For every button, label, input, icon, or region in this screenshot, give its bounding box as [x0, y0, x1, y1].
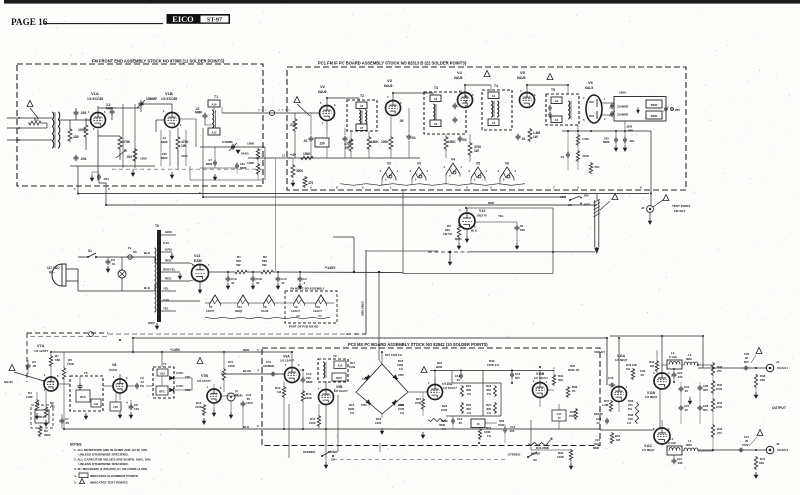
pilot lamp — [118, 270, 126, 278]
svg-text:T6: T6 — [84, 371, 88, 375]
svg-text:1/3 6BQ7: 1/3 6BQ7 — [645, 395, 658, 399]
svg-text:CATH: CATH — [176, 371, 183, 375]
svg-text:1.5M: 1.5M — [582, 137, 589, 141]
svg-text:FM SET: FM SET — [674, 209, 685, 213]
svg-text:R15 1500 1%: R15 1500 1% — [385, 353, 402, 357]
svg-text:3900: 3900 — [44, 433, 51, 437]
solder point exits box A — [77, 166, 79, 194]
svg-text:MMF: MMF — [206, 162, 213, 166]
svg-text:6AU6: 6AU6 — [261, 309, 269, 313]
svg-text:9: 9 — [503, 179, 505, 182]
svg-text:V5: V5 — [520, 70, 526, 75]
svg-text:MMF: MMF — [161, 140, 168, 144]
V7B cathode — [213, 403, 215, 410]
wire loop around V12 — [466, 207, 553, 209]
svg-text:6800: 6800 — [651, 114, 658, 118]
svg-text:BLK: BLK — [243, 425, 250, 429]
capacitor .01 V2 out — [344, 136, 346, 139]
test point triangle mx — [197, 358, 203, 364]
capacitor C1A 40 — [227, 276, 229, 279]
svg-text:OFF: OFF — [584, 203, 590, 207]
svg-text:TEST POINT: TEST POINT — [672, 204, 690, 208]
resistor 4700 1W — [176, 136, 180, 150]
svg-text:NE-2: NE-2 — [235, 393, 242, 397]
MX heater dashed box — [285, 291, 337, 323]
svg-text:100K: 100K — [228, 364, 236, 368]
heater V7 — [210, 295, 221, 304]
svg-text:1500: 1500 — [498, 423, 505, 427]
svg-text:A4: A4 — [492, 94, 496, 98]
svg-text:3: 3 — [444, 165, 446, 169]
svg-text:6AL5: 6AL5 — [585, 86, 593, 90]
svg-text:5: 5 — [583, 118, 585, 122]
svg-text:V7B: V7B — [201, 374, 208, 378]
svg-text:7: 7 — [553, 186, 555, 190]
svg-text:.001: .001 — [103, 177, 109, 181]
BLUE rail — [221, 373, 285, 375]
svg-text:6AU6: 6AU6 — [384, 84, 393, 88]
svg-text:4700: 4700 — [181, 154, 188, 158]
svg-text:7K: 7K — [572, 389, 576, 393]
svg-text:A15: A15 — [212, 131, 217, 135]
capacitor C24 — [680, 386, 682, 389]
svg-text:STEREO: STEREO — [303, 450, 316, 454]
heater V9 — [294, 295, 305, 304]
svg-text:A6: A6 — [434, 97, 438, 101]
resistor 100K osc2 — [256, 163, 259, 175]
svg-text:6AU6: 6AU6 — [517, 76, 526, 80]
capacitor 3.3 MMF — [111, 109, 113, 112]
capacitor C25 — [680, 405, 682, 408]
svg-text:MMF: MMF — [306, 380, 313, 384]
svg-text:A16: A16 — [212, 103, 217, 107]
wire V12 yel — [475, 221, 517, 223]
svg-text:1/2 12AU7: 1/2 12AU7 — [280, 359, 295, 363]
resistor 3900 — [291, 164, 295, 178]
ground arrows box A — [132, 170, 134, 174]
svg-text:T3: T3 — [434, 86, 438, 90]
resistor 1000 — [133, 148, 137, 162]
wire rail y197 — [203, 196, 566, 198]
resistor 470K — [118, 136, 122, 150]
resistor 100K V3 — [389, 136, 393, 150]
svg-text:7: 7 — [583, 96, 585, 100]
svg-text:150: 150 — [113, 405, 118, 409]
svg-text:6MA: 6MA — [686, 357, 692, 361]
svg-text:4: 4 — [486, 169, 488, 173]
neon lamp NE-2 — [227, 393, 235, 401]
svg-text:UNLESS OTHERWISE SPECIFIED.: UNLESS OTHERWISE SPECIFIED. — [79, 453, 129, 457]
tube V9B — [319, 390, 334, 405]
svg-text:55K: 55K — [558, 378, 563, 382]
capacitor C19 — [609, 384, 612, 386]
svg-text:T5: T5 — [551, 88, 555, 92]
wire V2 plate to T2 — [335, 109, 348, 111]
wire T7 to V7B — [174, 377, 192, 379]
svg-text:.05: .05 — [456, 378, 460, 382]
svg-text:335: 335 — [703, 388, 708, 392]
svg-text:V7A: V7A — [37, 344, 45, 348]
wires V1A cathode area — [97, 130, 99, 182]
svg-text:7: 7 — [428, 381, 430, 385]
svg-text:600: 600 — [520, 228, 525, 232]
wire front-end rails — [58, 119, 90, 121]
svg-text:1: 1 — [88, 110, 90, 114]
wire det to J4 — [650, 131, 652, 206]
svg-text:J1: J1 — [776, 360, 780, 364]
svg-text:CATH: CATH — [176, 384, 183, 388]
svg-text:220MMF: 220MMF — [617, 113, 629, 117]
svg-text:R31 250K: R31 250K — [536, 446, 550, 450]
svg-text:RED: RED — [243, 348, 250, 352]
svg-text:.01: .01 — [521, 137, 526, 141]
svg-text:470: 470 — [308, 181, 314, 185]
svg-text:3: 3 — [577, 186, 579, 190]
jack J2 CHAN 2 — [766, 446, 774, 454]
resistor 470 — [303, 176, 307, 188]
svg-text:1W 5%: 1W 5% — [443, 232, 453, 236]
svg-text:12: 12 — [282, 154, 285, 158]
V8 cathode gnd — [119, 412, 121, 416]
svg-text:1500: 1500 — [349, 365, 356, 369]
svg-text:1%: 1% — [400, 411, 405, 415]
capacitor C8 electrolytic — [130, 404, 132, 407]
svg-text:2: 2 — [604, 117, 606, 121]
svg-text:270: 270 — [717, 431, 722, 435]
svg-text:V12: V12 — [479, 209, 485, 213]
svg-text:8: 8 — [336, 186, 338, 190]
svg-text:V3: V3 — [387, 78, 393, 83]
svg-text:YEL: YEL — [163, 307, 169, 311]
svg-text:47K: 47K — [594, 165, 600, 169]
B+ rail — [208, 271, 234, 273]
svg-text:5: 5 — [74, 187, 76, 191]
svg-text:CR3: CR3 — [362, 377, 368, 381]
svg-text:A1: A1 — [555, 118, 559, 122]
svg-text:.05: .05 — [684, 389, 688, 393]
svg-text:470K: 470K — [195, 405, 203, 409]
svg-text:.05: .05 — [32, 364, 37, 368]
shield dashed line — [27, 332, 108, 334]
wire violet drop — [606, 338, 608, 385]
svg-text:CHAN 1: CHAN 1 — [777, 366, 788, 370]
svg-text:4: 4 — [466, 186, 468, 190]
svg-text:1%: 1% — [467, 392, 472, 396]
svg-text:600K 1%: 600K 1% — [568, 368, 580, 372]
wires mx section — [58, 383, 70, 385]
svg-text:1/2 12AU7: 1/2 12AU7 — [534, 376, 548, 380]
svg-text:C17: C17 — [557, 412, 562, 416]
resistor 6800 lower box — [646, 111, 662, 119]
svg-text:FM FRONT END ASSEMBLY STOC: FM FRONT END ASSEMBLY STOCK NO 97065 (11… — [92, 59, 225, 64]
svg-text:.005: .005 — [509, 429, 515, 433]
capacitor .001 top — [75, 110, 77, 113]
svg-text:5.: 5. — [74, 481, 77, 485]
svg-text:9: 9 — [415, 179, 417, 182]
wire rail y193 — [78, 193, 649, 195]
heater chain wiring — [200, 300, 210, 302]
svg-text:6: 6 — [640, 186, 642, 190]
svg-text:6: 6 — [534, 93, 536, 97]
svg-text:EZ80: EZ80 — [194, 259, 202, 263]
svg-text:220MMF: 220MMF — [617, 105, 629, 109]
svg-text:1%: 1% — [350, 411, 355, 415]
wire y252 to shield — [366, 250, 438, 252]
heater V8 — [264, 295, 275, 304]
V12 cathode arrow — [466, 230, 468, 236]
svg-text:T8: T8 — [155, 224, 159, 228]
svg-text:EICO: EICO — [172, 15, 194, 24]
svg-text:005: 005 — [703, 408, 708, 412]
svg-text:CHAN 2: CHAN 2 — [777, 448, 788, 452]
svg-text:4.5: 4.5 — [318, 314, 322, 318]
svg-text:1: 1 — [44, 373, 46, 377]
bridge diamond wiring — [356, 364, 408, 414]
svg-text:A13: A13 — [338, 364, 343, 368]
long verticals below box C — [288, 404, 290, 458]
svg-text:BLK: BLK — [144, 251, 151, 255]
EICO logo box — [167, 14, 231, 24]
svg-text:RED: RED — [165, 259, 172, 263]
wire V11B cathode to V11C — [659, 389, 661, 428]
rail BLK inside — [262, 428, 600, 430]
svg-text:CR5: CR5 — [398, 373, 404, 377]
svg-text:10: 10 — [558, 416, 561, 420]
wire mixer rail — [141, 103, 172, 105]
svg-text:A3: A3 — [492, 121, 496, 125]
svg-text:15V: 15V — [134, 407, 139, 411]
capacitor C26 — [699, 385, 701, 388]
svg-text:6: 6 — [257, 424, 259, 428]
svg-text:1/3 6BQ7: 1/3 6BQ7 — [615, 358, 628, 362]
wire matrix box — [451, 371, 453, 384]
wire mx rail y352 — [51, 351, 262, 353]
svg-text:GRN SHLD: GRN SHLD — [361, 301, 365, 316]
wires output chan2 — [661, 420, 663, 428]
T8 secondary taps — [161, 234, 176, 236]
svg-text:4: 4 — [461, 165, 463, 169]
wire matrix rail y370 — [430, 370, 554, 372]
svg-text:4: 4 — [520, 89, 522, 93]
capacitor C17 box — [552, 410, 566, 421]
capacitor 120MMF — [236, 163, 238, 166]
+4V rail — [287, 157, 420, 159]
svg-text:117 VAC: 117 VAC — [47, 266, 60, 270]
svg-text:RED: RED — [488, 201, 495, 205]
svg-text:6.3V: 6.3V — [163, 241, 169, 245]
svg-text:4: 4 — [387, 95, 389, 99]
svg-text:.01: .01 — [111, 262, 116, 266]
MX IN label — [9, 365, 15, 371]
svg-text:270: 270 — [717, 369, 722, 373]
svg-text:150V: 150V — [742, 443, 749, 447]
svg-text:9: 9 — [199, 191, 201, 195]
svg-text:RED/YEL: RED/YEL — [163, 268, 176, 272]
wire +4V entry — [248, 157, 292, 159]
bridge wires — [348, 365, 356, 367]
svg-text:MX IN: MX IN — [4, 380, 13, 384]
test point triangle J4 — [663, 195, 669, 201]
svg-text:6: 6 — [108, 187, 110, 191]
output rail chan2 — [698, 449, 766, 451]
wires inside box C right — [539, 371, 541, 383]
svg-text:1/2 ECC85: 1/2 ECC85 — [161, 97, 177, 101]
svg-text:S1: S1 — [88, 249, 92, 253]
svg-text:.05: .05 — [458, 421, 462, 425]
svg-text:6AU6: 6AU6 — [109, 368, 117, 372]
svg-text:40: 40 — [281, 281, 285, 285]
svg-text:.01: .01 — [303, 139, 308, 143]
test point triangle J2 — [757, 430, 763, 436]
svg-text:1: 1 — [113, 375, 115, 379]
alignment box 130 — [315, 138, 329, 147]
svg-text:150V: 150V — [246, 401, 253, 405]
svg-text:6: 6 — [57, 374, 59, 378]
svg-text:6047: 6047 — [336, 376, 342, 380]
wires output top — [661, 336, 663, 373]
tube V11C — [654, 428, 670, 444]
diode CR5 — [393, 375, 398, 380]
capacitor .01 T4 — [517, 134, 519, 137]
svg-text:2: 2 — [362, 186, 364, 190]
test point triangle V5 — [547, 74, 553, 80]
detector box wiring — [614, 97, 666, 122]
svg-text:4: 4 — [515, 169, 517, 173]
wire box C bottom exits — [379, 443, 381, 452]
wires cap ladder — [680, 382, 682, 385]
ground rail bottom BLK — [64, 428, 262, 430]
svg-text:+145V: +145V — [325, 266, 336, 270]
svg-text:.01: .01 — [411, 136, 416, 140]
capacitor .01 T3 out — [459, 136, 461, 139]
capacitor .01 det — [567, 152, 569, 155]
capacitor C27 — [738, 449, 741, 451]
svg-text:T2: T2 — [360, 94, 364, 98]
detector bottom rail — [562, 130, 651, 132]
svg-text:7: 7 — [208, 263, 210, 267]
svg-text:V1A: V1A — [91, 91, 99, 96]
svg-text:.01: .01 — [462, 138, 467, 142]
resistor 150K on +4V — [300, 156, 314, 159]
output rail chan1 — [698, 367, 766, 369]
svg-text:150K: 150K — [448, 140, 456, 144]
svg-text:V4: V4 — [451, 158, 455, 162]
svg-text:BLK: BLK — [144, 286, 151, 290]
svg-text:RFC: RFC — [159, 390, 165, 394]
svg-text:2.2M: 2.2M — [602, 403, 609, 407]
svg-text:1%: 1% — [399, 367, 404, 371]
test point triangle ant — [27, 101, 33, 107]
svg-text:MMF: MMF — [161, 156, 168, 160]
output cap 28V — [665, 106, 667, 109]
heater bus wavy — [340, 184, 525, 186]
test point triangle J1 — [756, 348, 762, 354]
svg-text:150K: 150K — [303, 152, 311, 156]
svg-text:6BQ7: 6BQ7 — [235, 309, 243, 313]
capacitor 220MMF bypass — [615, 137, 617, 140]
svg-text:4: 4 — [459, 208, 461, 212]
svg-text:1/2 12AU7: 1/2 12AU7 — [334, 389, 348, 393]
svg-text:6.3V: 6.3V — [163, 298, 169, 302]
svg-text:4: 4 — [668, 371, 670, 375]
svg-text:5: 5 — [257, 348, 259, 352]
capacitor C1B 40 — [252, 276, 254, 279]
svg-text:5: 5 — [320, 101, 322, 105]
wire V12 return vertical — [353, 237, 355, 272]
capacitor 220MMF lower — [611, 111, 613, 114]
svg-text:PC1 FM IF PC BOARD ASSEMBLY: PC1 FM IF PC BOARD ASSEMBLY STOCK NO 825… — [318, 61, 467, 66]
svg-text:4: 4 — [257, 368, 259, 372]
svg-text:1. ALL RESISTORS ARE IN OHMS A: 1. ALL RESISTORS ARE IN OHMS ARE 1/2 W, … — [74, 448, 148, 452]
resistor 4700 1W — [468, 142, 472, 156]
V13 cathode down arrow — [199, 282, 201, 288]
wires V11 bias — [661, 444, 663, 446]
svg-text:.033: .033 — [677, 375, 683, 379]
svg-text:180: 180 — [73, 135, 79, 139]
PC2 MX board dashed box — [262, 348, 600, 446]
svg-text:CR4: CR4 — [361, 403, 367, 407]
diode CR4 — [366, 400, 371, 405]
svg-text:3: 3 — [498, 169, 500, 173]
diode CR2 — [170, 388, 174, 391]
capacitor C1C 40 — [277, 276, 279, 279]
tube V11B — [654, 373, 670, 389]
svg-text:.05: .05 — [640, 373, 644, 377]
svg-text:6: 6 — [400, 101, 402, 105]
svg-text:2: 2 — [298, 363, 300, 367]
svg-text:INDICATES ALIGNMENT POINTS: INDICATES ALIGNMENT POINTS — [90, 474, 138, 478]
svg-text:.001: .001 — [80, 111, 87, 115]
dashed shield segment — [428, 251, 470, 253]
svg-text:1: 1 — [604, 97, 606, 101]
svg-text:3: 3 — [410, 169, 412, 173]
svg-text:12AT7: 12AT7 — [206, 309, 215, 313]
svg-text:MMF: MMF — [195, 111, 202, 115]
resistor 8.2 — [28, 121, 42, 125]
svg-text:1500: 1500 — [309, 421, 316, 425]
svg-text:V2: V2 — [320, 84, 326, 89]
wire V1B plate to osc — [180, 118, 197, 120]
svg-text:9: 9 — [449, 175, 451, 178]
svg-text:1W: 1W — [474, 149, 479, 153]
diode CR6 — [392, 400, 397, 405]
svg-text:5: 5 — [490, 186, 492, 190]
wire T7 feed — [161, 352, 163, 367]
svg-text:ON MX PC BD ASSEMBLY: ON MX PC BD ASSEMBLY — [290, 287, 325, 291]
svg-text:1W: 1W — [533, 135, 538, 139]
junction dots rails — [77, 193, 79, 195]
alignment box 10 1500 — [471, 419, 485, 428]
svg-text:V8: V8 — [112, 363, 116, 367]
AFC coil — [596, 194, 598, 201]
capacitor .01 V2 grid — [310, 136, 312, 139]
svg-text:7: 7 — [322, 121, 324, 125]
svg-text:A7: A7 — [360, 126, 364, 130]
J4 ground arrow — [649, 213, 651, 219]
svg-text:A2: A2 — [555, 99, 559, 103]
svg-text:AFC: AFC — [560, 195, 567, 199]
svg-text:6AK5: 6AK5 — [241, 152, 249, 156]
svg-text:T4: T4 — [494, 84, 498, 88]
svg-text:6: 6 — [472, 93, 474, 97]
svg-text:180K: 180K — [371, 140, 379, 144]
svg-text:V13: V13 — [194, 254, 200, 258]
svg-text:PART OF PCB MX BD: PART OF PCB MX BD — [289, 325, 319, 329]
svg-text:500: 500 — [515, 376, 520, 380]
resistor 150K — [444, 136, 448, 150]
svg-text:1M: 1M — [616, 438, 621, 442]
heater V11 — [238, 295, 249, 304]
